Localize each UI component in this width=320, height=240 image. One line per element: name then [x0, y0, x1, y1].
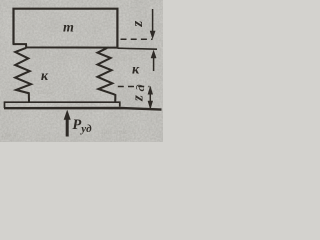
arrowhead P_ud (up): [64, 110, 71, 120]
base plate bottom edge extending right (z_d reference line): [4, 108, 162, 110]
svg-text:∂: ∂: [134, 84, 146, 92]
spring K left: [15, 48, 31, 103]
svg-text:механ: механ: [30, 0, 48, 8]
svg-text:к: к: [41, 69, 49, 84]
faint print bleed-through smudges: [2, 0, 134, 143]
force arrow P_ud shaft: [66, 118, 69, 137]
dimension z_d: dashed displaced line (bottom): [118, 86, 150, 88]
svg-text:знач: знач: [118, 135, 131, 142]
svg-text:установ: установ: [30, 88, 54, 96]
arrowhead z bottom (up): [151, 50, 157, 59]
svg-text:z: z: [130, 21, 146, 28]
mass m rectangle: [14, 9, 118, 48]
svg-text:где в ·: где в ·: [2, 131, 19, 139]
arrowhead z top (down): [150, 31, 156, 39]
dimension z_d: vertical line with two arrows: [149, 88, 151, 109]
svg-text:прав: прав: [120, 54, 134, 62]
svg-text:z: z: [130, 95, 146, 102]
dimension z: upper arrow pointing down: [152, 9, 154, 37]
arrowhead z_d bottom (down): [148, 101, 153, 110]
spring K right: [98, 48, 116, 102]
base plate: [5, 102, 120, 108]
dimension z: lower arrow pointing up: [153, 52, 155, 71]
mass bottom edge extension line (z reference): [117, 48, 157, 49]
mass bottom edge with step: [13, 44, 118, 48]
arrowhead z_d top (up): [148, 86, 153, 95]
svg-text:к: к: [132, 62, 140, 77]
dimension z: dashed displaced line (top): [121, 38, 153, 40]
paper background: [0, 0, 163, 142]
svg-text:m: m: [63, 21, 74, 36]
